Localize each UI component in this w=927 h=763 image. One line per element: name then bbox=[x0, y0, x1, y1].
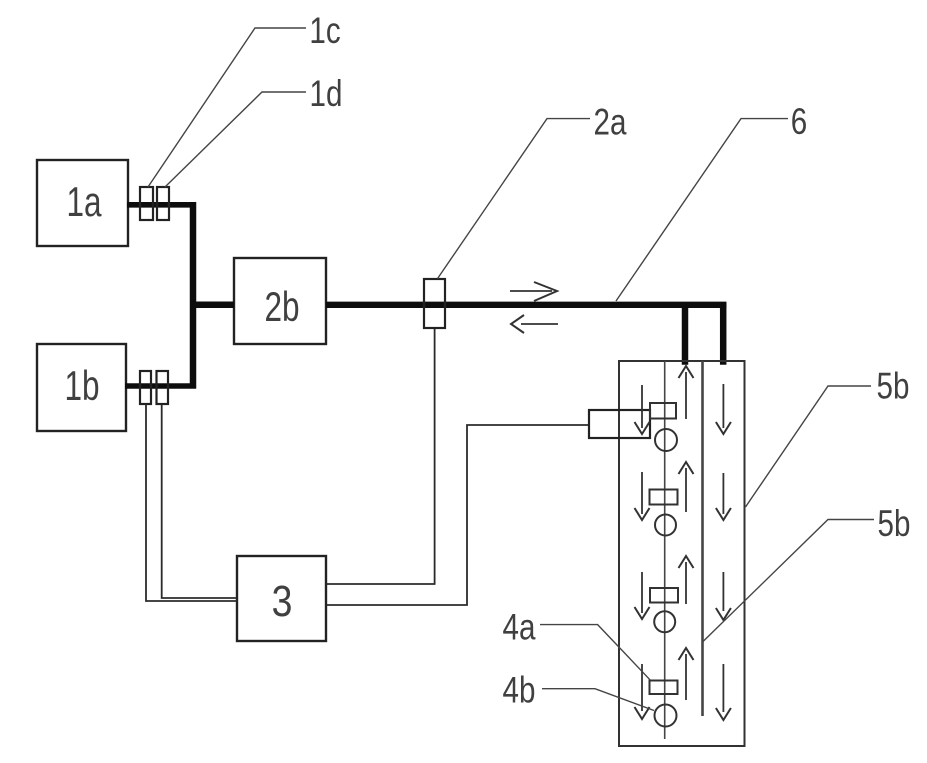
thick pipe trunk to 2b bbox=[193, 302, 234, 309]
svg-text:2b: 2b bbox=[264, 283, 299, 331]
up arrow middle channel 3 bbox=[679, 556, 694, 604]
down arrow left channel 3 bbox=[635, 572, 650, 619]
label 4b bbox=[503, 670, 654, 711]
valve 4a row 1 bbox=[650, 403, 676, 419]
actuator box on heat sink bbox=[589, 410, 650, 438]
wire from 1b connector to box 3 bbox=[146, 404, 237, 601]
svg-text:3: 3 bbox=[272, 576, 293, 626]
connector 1d on 1a bbox=[157, 187, 169, 220]
heat sink center line bbox=[664, 361, 666, 739]
thick pipe from 1b bbox=[125, 383, 196, 389]
down arrow left channel 1 bbox=[635, 385, 650, 434]
svg-text:4a: 4a bbox=[503, 607, 536, 648]
svg-text:1b: 1b bbox=[64, 362, 99, 410]
connector 1c on 1b bbox=[140, 371, 151, 404]
connector 1d on 1b bbox=[157, 371, 169, 404]
pump 4b row 4 bbox=[655, 705, 677, 727]
svg-text:1c: 1c bbox=[309, 11, 340, 52]
down arrow right channel 4 bbox=[716, 664, 731, 720]
flow arrow right on pipe 6 bbox=[510, 282, 557, 301]
thick pipe drop right bbox=[720, 302, 727, 365]
valve 4a row 3 bbox=[650, 588, 678, 603]
thick pipe drop left bbox=[682, 305, 689, 365]
down arrow right channel 1 bbox=[716, 384, 731, 434]
svg-text:1a: 1a bbox=[66, 178, 101, 226]
thick pipe 6 from 2b to heat sink bbox=[326, 302, 726, 308]
box 2b bbox=[234, 258, 326, 344]
label 5b lower bbox=[703, 504, 911, 642]
label 5b upper bbox=[746, 366, 910, 507]
label 6 bbox=[616, 102, 807, 301]
thick pipe vertical trunk bbox=[190, 202, 197, 389]
connector 1c on 1a bbox=[140, 187, 153, 220]
svg-text:4b: 4b bbox=[503, 670, 536, 711]
pump 4b row 3 bbox=[654, 611, 675, 632]
box 3 bbox=[237, 556, 326, 641]
svg-text:1d: 1d bbox=[310, 74, 343, 115]
label 4a bbox=[503, 607, 650, 679]
wire from 1b connector to box 3 upper bbox=[162, 404, 237, 598]
down arrow right channel 3 bbox=[716, 572, 731, 620]
svg-text:6: 6 bbox=[791, 102, 807, 143]
heat sink inner wall 5b bbox=[701, 361, 704, 716]
pump 4b row 2 bbox=[655, 515, 676, 536]
thick pipe from 1a bbox=[127, 202, 196, 208]
down arrow left channel 2 bbox=[635, 472, 650, 520]
up arrow middle channel 4 bbox=[679, 648, 694, 700]
wire from box 3 to sensor 2a bbox=[327, 328, 435, 584]
wire from box 3 to actuator box bbox=[327, 425, 590, 605]
svg-text:2a: 2a bbox=[594, 102, 627, 143]
label 1d bbox=[165, 74, 342, 187]
down arrow left channel 4 bbox=[635, 664, 650, 719]
label 2a bbox=[438, 102, 627, 278]
valve 4a row 4 bbox=[650, 681, 678, 695]
box 1b bbox=[37, 344, 126, 431]
sensor 2a bbox=[424, 279, 445, 328]
svg-text:5b: 5b bbox=[877, 366, 910, 407]
valve 4a row 2 bbox=[650, 490, 678, 505]
svg-text:5b: 5b bbox=[878, 504, 911, 545]
pump 4b row 1 bbox=[655, 429, 677, 451]
up arrow middle channel 1 bbox=[679, 366, 694, 419]
up arrow middle channel 2 bbox=[679, 462, 694, 512]
flow arrow left on pipe 6 bbox=[511, 315, 558, 333]
label 1c bbox=[148, 11, 341, 187]
box 1a bbox=[37, 160, 128, 246]
down arrow right channel 2 bbox=[716, 473, 731, 520]
heat sink outer box 5a bbox=[619, 361, 745, 746]
